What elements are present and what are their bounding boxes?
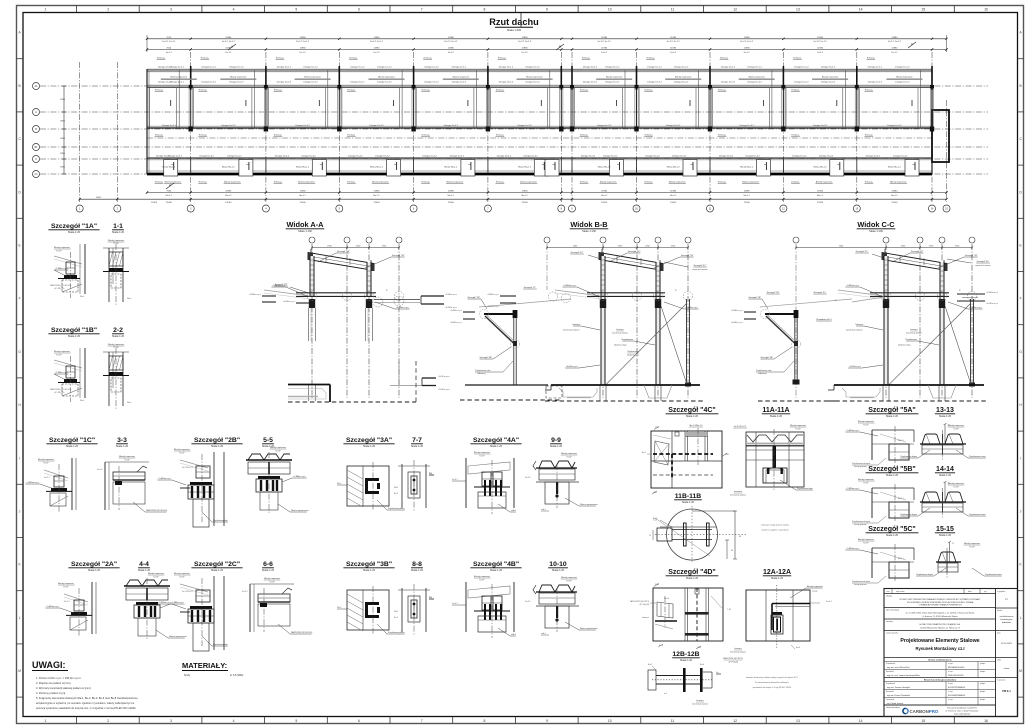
svg-text:Ecktacja: Ecktacja (791, 134, 800, 137)
svg-text:kotwiące: kotwiące (856, 323, 863, 326)
svg-text:Skala 1:20: Skala 1:20 (680, 658, 693, 662)
view A-A tie rod circles (373, 297, 383, 307)
Widok C-C crane beam (870, 292, 949, 294)
svg-text:Skala 1:20: Skala 1:20 (770, 414, 783, 418)
svg-text:Ma-1.2: Ma-1.2 (744, 195, 751, 197)
svg-text:Skala 1:200: Skala 1:200 (507, 28, 522, 32)
svg-text:Skala 1:20: Skala 1:20 (112, 334, 125, 338)
svg-text:Dv-3.4: Dv-3.4 (664, 598, 669, 600)
svg-text:11980: 11980 (817, 37, 824, 39)
title block outline (884, 589, 1018, 717)
svg-text:9: 9 (546, 8, 548, 12)
svg-text:L: L (1020, 616, 1022, 620)
svg-text:PROJEKT JEST PRZEDMIOTEM PRAWA: PROJEKT JEST PRZEDMIOTEM PRAWA AUTORSKIE… (900, 598, 982, 601)
svg-text:I: I (1020, 456, 1021, 460)
svg-text:+5,880m n.p.t.: +5,880m n.p.t. (846, 284, 859, 287)
svg-text:Blachy trapezowe: Blachy trapezowe (474, 451, 491, 454)
Widok B-B grid bubbles and dimension line (600, 237, 606, 243)
svg-text:architektoniczna: architektoniczna (1000, 615, 1015, 618)
svg-text:Ma-1.1: Ma-1.1 (166, 195, 173, 197)
svg-text:PW-K-1: PW-K-1 (1002, 690, 1011, 693)
Widok A-A crane beam (296, 292, 376, 294)
svg-text:5: 5 (295, 719, 297, 723)
svg-text:M: M (18, 669, 21, 673)
svg-text:Blachy trapezowe: Blachy trapezowe (304, 76, 321, 79)
svg-text:kotwiące konstrukcje stalowe n: kotwiące konstrukcje stalowe należy oczy… (746, 676, 799, 679)
svg-text:15.10.2021: 15.10.2021 (1001, 643, 1013, 645)
svg-text:ZAWY.ŻURZ (ISO.W7.9): ZAWY.ŻURZ (ISO.W7.9) (723, 657, 743, 660)
svg-text:Wa-1: Wa-1 (80, 400, 84, 402)
svg-text:wiązanie kuszowe: wiązanie kuszowe (975, 265, 990, 267)
svg-text:Dźwigar Dv-2.2: Dźwigar Dv-2.2 (721, 80, 736, 83)
svg-text:Dv-1.2: Dv-1.2 (522, 52, 529, 54)
svg-text:branża:: branża: (997, 609, 1003, 612)
svg-text:żelb.1: żelb.1 (511, 510, 516, 512)
svg-text:Ecktacja: Ecktacja (791, 181, 800, 184)
svg-text:Szczegół "4D": Szczegół "4D" (668, 569, 715, 576)
svg-text:Skala 1:20: Skala 1:20 (552, 568, 565, 572)
svg-text:+5,880m n.p.t.: +5,880m n.p.t. (450, 309, 463, 312)
svg-text:konstrukcja stalowa: konstrukcja stalowa (612, 332, 628, 335)
detail drawing 14-14 (922, 492, 940, 502)
svg-text:Projektowany słup: Projektowany słup (756, 369, 771, 372)
detail drawing 2-2 (103, 351, 129, 353)
svg-text:Dv-2.2, Dv-1.2: Dv-2.2, Dv-1.2 (370, 41, 384, 43)
svg-text:Wieńce wyrównawcze: Wieńce wyrównawcze (291, 510, 309, 512)
svg-text:Dźwigar Dv-4.2: Dźwigar Dv-4.2 (422, 155, 437, 158)
svg-text:F: F (1020, 297, 1022, 301)
svg-text:Dźwigar Dv-1.2: Dźwigar Dv-1.2 (794, 65, 809, 68)
svg-text:Szczegół "3A": Szczegół "3A" (346, 437, 392, 444)
svg-text:nr rysunku:: nr rysunku: (997, 679, 1006, 682)
svg-text:Ecktacja: Ecktacja (155, 89, 164, 92)
svg-text:żelbetowy: żelbetowy (758, 372, 766, 375)
detail drawing 1-1 (103, 247, 129, 249)
Widok A-A joint circles (307, 291, 316, 300)
title block staff section constructors (884, 681, 996, 683)
svg-text:2950: 2950 (60, 153, 66, 155)
title block right column cells (996, 607, 1018, 609)
svg-text:Prowadnica HL-1: Prowadnica HL-1 (816, 319, 832, 321)
detail drawing 3-3 (104, 462, 106, 510)
svg-text:Dv-1.2: Dv-1.2 (670, 52, 677, 54)
svg-text:Ecktacja: Ecktacja (580, 89, 589, 92)
svg-text:Dźwigar Dv-1.2: Dźwigar Dv-1.2 (721, 65, 736, 68)
svg-text:Skala 1:20: Skala 1:20 (686, 576, 699, 580)
svg-text:11980: 11980 (891, 191, 898, 193)
svg-text:84: 84 (739, 536, 741, 538)
svg-text:Dv-1.2: Dv-1.2 (225, 52, 232, 54)
svg-text:podpis:: podpis: (980, 663, 986, 665)
svg-text:Dźwigar Dv-1.2: Dźwigar Dv-1.2 (424, 65, 439, 68)
svg-text:2°: 2° (835, 300, 837, 302)
svg-text:+4,080m n.p.t.: +4,080m n.p.t. (283, 300, 296, 303)
svg-text:11980: 11980 (601, 37, 608, 39)
svg-text:Projektował:: Projektował: (886, 662, 896, 665)
svg-text:Skala 1:20: Skala 1:20 (411, 444, 424, 448)
svg-text:Dźwigar Dv-1.2: Dźwigar Dv-1.2 (868, 65, 883, 68)
svg-text:Projektowane zbrojone: Projektowane zbrojone (852, 520, 870, 523)
svg-text:mgr inż. Daniel Chrobocki: mgr inż. Daniel Chrobocki (887, 695, 910, 697)
detail drawing Szczegol 5C (871, 548, 873, 578)
svg-text:Projektowany słup: Projektowany słup (475, 369, 490, 372)
svg-text:Dźwigar Dv-1.2: Dźwigar Dv-1.2 (605, 65, 620, 68)
svg-text:Blachy trapezowe: Blachy trapezowe (600, 181, 617, 184)
svg-text:11980: 11980 (300, 48, 307, 50)
svg-text:Ecktacja: Ecktacja (347, 181, 356, 184)
Widok B-B columns (601, 256, 605, 385)
svg-text:+4,080m n.p.t.: +4,080m n.p.t. (487, 305, 500, 308)
svg-text:16: 16 (984, 8, 988, 12)
svg-text:2: 2 (107, 8, 109, 12)
svg-text:T155P: T155P (56, 355, 62, 357)
svg-text:Projektowana ściana: Projektowana ściana (969, 455, 986, 458)
svg-text:2°: 2° (386, 290, 388, 292)
svg-text:adnotacje/podpisy:: adnotacje/podpisy: (886, 706, 901, 709)
svg-text:kotwiące: kotwiące (734, 647, 741, 650)
plan top dimension lines (147, 38, 947, 40)
svg-text:Ma-1.2: Ma-1.2 (670, 195, 677, 197)
svg-text:4: 4 (233, 719, 235, 723)
svg-text:nr upr.:: nr upr.: (948, 670, 954, 673)
svg-text:+5,880m n.p.t.: +5,880m n.p.t. (487, 293, 500, 296)
svg-text:11980: 11980 (670, 191, 677, 193)
plan bottom heavy line (147, 173, 932, 176)
svg-text:Bu-2: Bu-2 (648, 664, 652, 666)
title block logo row (884, 704, 996, 706)
svg-text:konstrukcja stalowa: konstrukcja stalowa (906, 332, 922, 335)
svg-text:Dv-1.2: Dv-1.2 (817, 52, 824, 54)
svg-text:5. Fragmenty elementów stal: 5. Fragmenty elementów stalowych Wa-1, B… (36, 696, 138, 700)
svg-text:Szczegół "4C": Szczegół "4C" (628, 251, 641, 253)
svg-text:Skala 1:20: Skala 1:20 (550, 444, 563, 448)
svg-text:T155P: T155P (179, 576, 185, 578)
svg-text:15: 15 (921, 8, 925, 12)
svg-text:+(P+Pb)+(N): +(P+Pb)+(N) (639, 604, 649, 606)
svg-text:12: 12 (733, 8, 737, 12)
svg-text:E: E (19, 244, 21, 248)
svg-text:Marka Ma-1.1: Marka Ma-1.1 (162, 166, 176, 169)
svg-text:obudowa słupa: obudowa słupa (614, 345, 628, 347)
svg-text:Szczegół "1B": Szczegół "1B" (748, 297, 761, 299)
svg-text:nawiercić zgodnie z rysunkiem: nawiercić zgodnie z rysunkiem (761, 530, 788, 532)
view A-A left level marks (296, 302, 310, 304)
view C-C right bracket marks (957, 293, 985, 295)
svg-text:6000: 6000 (96, 197, 102, 199)
svg-text:15-15: 15-15 (936, 526, 954, 533)
svg-text:2950: 2950 (60, 121, 66, 123)
svg-text:Projektowany słup: Projektowany słup (213, 519, 228, 522)
detail drawing 7-7 (401, 464, 403, 508)
svg-text:Skala 1:20: Skala 1:20 (886, 414, 899, 418)
Widok B-B diagonal braces (606, 303, 687, 385)
svg-text:Projektowane słupy: Projektowane słupy (797, 487, 813, 490)
svg-text:Skala 1:20: Skala 1:20 (68, 230, 81, 234)
svg-text:Skala 1:20: Skala 1:20 (66, 444, 79, 448)
svg-text:Blachy trapezowe: Blachy trapezowe (748, 76, 765, 79)
bottom tick strip (76, 717, 78, 724)
plan horizontal grid lines (40, 85, 988, 87)
title block header row (891, 589, 893, 594)
svg-text:B: B (19, 84, 21, 88)
svg-text:Dv-1.2: Dv-1.2 (374, 52, 381, 54)
Widok A-A foundation existing (288, 384, 330, 386)
svg-text:Blachy trapezowe: Blachy trapezowe (148, 572, 165, 575)
svg-text:ściany oporowe: ściany oporowe (854, 524, 867, 526)
svg-text:T155P: T155P (812, 591, 818, 593)
svg-text:podpis:: podpis: (980, 683, 986, 685)
svg-text:Ma-1.1: Ma-1.1 (898, 498, 904, 500)
svg-text:nazwa rysunku:: nazwa rysunku: (886, 633, 899, 635)
svg-text:Blachy trapezowe: Blachy trapezowe (224, 181, 241, 184)
svg-text:T155P: T155P (63, 586, 69, 588)
svg-text:Blachy trapezowe: Blachy trapezowe (230, 76, 247, 79)
svg-text:Skala 1:20: Skala 1:20 (262, 568, 275, 572)
svg-text:antykorozyjnie w wytwórni, po: antykorozyjnie w wytwórni, po montażu zg… (36, 701, 135, 705)
svg-text:Skala 1:20: Skala 1:20 (682, 500, 695, 504)
svg-text:Wa-1: Wa-1 (337, 607, 341, 609)
svg-text:rys.: rys. (984, 591, 987, 593)
svg-text:7: 7 (421, 719, 423, 723)
svg-text:żelb.1: żelb.1 (541, 509, 546, 511)
svg-text:11: 11 (671, 8, 675, 12)
view A-A bracket ground (465, 384, 548, 386)
svg-text:Projektował:: Projektował: (886, 682, 896, 685)
detail drawing Szczegol 4C (651, 431, 722, 488)
svg-text:15: 15 (921, 719, 925, 723)
svg-text:Dv-2.1, Dv-1.1: Dv-2.1, Dv-1.1 (162, 41, 176, 43)
plan bottom dimension lines (147, 192, 947, 194)
svg-text:+5,880m n.p.t.: +5,880m n.p.t. (846, 487, 859, 490)
svg-text:Marka Ma-1.2: Marka Ma-1.2 (518, 166, 532, 169)
title block staff section architects (884, 661, 996, 663)
svg-text:Ma-1.2: Ma-1.2 (373, 195, 380, 197)
svg-text:10: 10 (608, 8, 612, 12)
svg-text:T155P: T155P (953, 428, 959, 430)
svg-text:Szczegół "4A": Szczegół "4A" (473, 437, 519, 444)
svg-text:Ecktacja: Ecktacja (199, 181, 208, 184)
svg-text:Szczegół "3B": Szczegół "3B" (760, 357, 773, 359)
svg-text:żelb.1: żelb.1 (541, 633, 546, 635)
svg-text:ZAWY.ŻURZ (ISO.W7.9-II): ZAWY.ŻURZ (ISO.W7.9-II) (50, 388, 72, 391)
svg-text:Skala 1:20: Skala 1:20 (411, 568, 424, 572)
svg-text:Ecktacja: Ecktacja (645, 134, 654, 137)
svg-text:6: 6 (358, 8, 360, 12)
svg-text:Dźwigar Dv-1.2: Dźwigar Dv-1.2 (647, 65, 662, 68)
svg-text:Dv-1.2: Dv-1.2 (448, 52, 455, 54)
view C-C tie extension (852, 297, 884, 302)
svg-text:Szczegół "1B": Szczegół "1B" (392, 255, 405, 257)
svg-text:Szczegół "4C": Szczegół "4C" (911, 251, 924, 253)
svg-text:Dźwigar Dv-2.2: Dźwigar Dv-2.2 (895, 80, 910, 83)
svg-text:podpis:: podpis: (980, 699, 986, 701)
svg-text:UDOSTĘPNIANY OSOBOM TRZECIM BE: UDOSTĘPNIANY OSOBOM TRZECIM BEZ ZGODY AU… (907, 601, 974, 604)
svg-text:nr upr.:: nr upr.: (948, 662, 954, 665)
svg-text:data: data (968, 590, 972, 593)
svg-text:Dźwigar Dv-2.1: Dźwigar Dv-2.1 (170, 80, 185, 83)
svg-text:Dv-1.2: Dv-1.2 (300, 52, 307, 54)
svg-text:Marka Ma-1.2: Marka Ma-1.2 (598, 166, 612, 169)
svg-text:konstrukcyjno-: konstrukcyjno- (1000, 618, 1013, 621)
svg-text:Dźwigar Dv-1.2: Dźwigar Dv-1.2 (499, 65, 514, 68)
svg-text:kotwiące: kotwiące (616, 328, 623, 331)
svg-text:Dźwigar Dv-2.2: Dźwigar Dv-2.2 (229, 80, 244, 83)
svg-text:Projektowane zbrojone: Projektowane zbrojone (852, 580, 870, 583)
svg-text:Dźwigar Dv-2.2: Dźwigar Dv-2.2 (583, 80, 598, 83)
svg-text:+4,080m n.p.t.: +4,080m n.p.t. (685, 306, 698, 309)
svg-text:mgr inż. Tomasz Gosztyła: mgr inż. Tomasz Gosztyła (887, 686, 911, 689)
svg-text:Dźwigar Dv-4.2: Dźwigar Dv-4.2 (523, 155, 538, 158)
svg-text:Dv-2.3/Dv-2.1: Dv-2.3/Dv-2.1 (182, 467, 193, 469)
svg-text:8: 8 (483, 719, 485, 723)
svg-text:16: 16 (984, 719, 988, 723)
svg-text:+5,880m n.p.t.: +5,880m n.p.t. (249, 293, 262, 296)
Widok C-C levels (860, 287, 881, 296)
svg-text:żelb.1: żelb.1 (511, 634, 516, 636)
svg-text:Dźwigar Dv-4.2: Dźwigar Dv-4.2 (581, 155, 596, 158)
svg-text:Skala 1:20: Skala 1:20 (771, 576, 784, 580)
svg-text:T155P: T155P (863, 542, 869, 544)
svg-text:Marka Ma-1.2: Marka Ma-1.2 (888, 166, 902, 169)
svg-text:Dźwigar Dv-4.2: Dźwigar Dv-4.2 (200, 155, 215, 158)
svg-text:13: 13 (796, 719, 800, 723)
svg-text:obudowa słupa: obudowa słupa (627, 355, 639, 357)
Widok C-C secondary column (970, 299, 972, 385)
svg-text:Ecktacja: Ecktacja (274, 134, 283, 137)
svg-text:7-7: 7-7 (412, 437, 422, 444)
svg-text:Ecktacja: Ecktacja (865, 181, 874, 184)
svg-text:5-5: 5-5 (263, 437, 273, 444)
svg-text:żelbetowy: żelbetowy (477, 372, 485, 375)
svg-text:Blachy trapezowe: Blachy trapezowe (165, 181, 182, 184)
svg-text:HUTA CYNKU MIASTECZKO ŚLĄSKIE: HUTA CYNKU MIASTECZKO ŚLĄSKIE S.A. (919, 623, 960, 626)
svg-text:Szczegół "1B": Szczegół "1B" (681, 255, 694, 257)
svg-text:Dźwigar Dv-3.2: Dźwigar Dv-3.2 (369, 124, 384, 127)
svg-text:Dźwigar Dv-1.2: Dźwigar Dv-1.2 (277, 65, 292, 68)
detail drawing 13-13 (922, 434, 940, 444)
svg-text:Dv-1.2: Dv-1.2 (601, 52, 608, 54)
svg-text:Dźwigar Dv-3.2: Dźwigar Dv-3.2 (597, 124, 612, 127)
svg-text:Projektowana ściana: Projektowana ściana (985, 573, 1002, 576)
detail drawing 6-6 (249, 584, 251, 632)
svg-text:Dźwigar Dv-4.2: Dźwigar Dv-4.2 (672, 155, 687, 158)
Widok A-A roof truss (308, 253, 374, 271)
svg-text:11980: 11980 (448, 191, 455, 193)
svg-text:Szczegół "1A": Szczegół "1A" (337, 250, 350, 253)
svg-text:Dźwigar Dv-3.2: Dźwigar Dv-3.2 (295, 124, 310, 127)
svg-text:Bu-6: Bu-6 (700, 664, 704, 666)
svg-text:www.carbonpro.pl: www.carbonpro.pl (954, 714, 970, 716)
svg-text:12000: 12000 (817, 202, 824, 204)
svg-text:+4,080m n.p.t.: +4,080m n.p.t. (396, 306, 409, 309)
svg-text:11980: 11980 (744, 37, 751, 39)
svg-text:ściany oporowe: ściany oporowe (854, 584, 867, 586)
svg-text:Ecktacja: Ecktacja (496, 89, 505, 92)
svg-text:Ma-1.2/Ma-1.3: Ma-1.2/Ma-1.3 (689, 425, 703, 427)
svg-text:ul. Hutnicza 17, 42-610 Miaste: ul. Hutnicza 17, 42-610 Miasteczko Śląsk… (922, 615, 957, 618)
svg-text:Projektowana: Projektowana (627, 350, 639, 353)
svg-text:Wieńce wyrównawcze: Wieńce wyrównawcze (580, 504, 598, 506)
detail drawing 9-9 (539, 461, 575, 468)
svg-text:M: M (1019, 669, 1022, 673)
svg-text:Ecktacja: Ecktacja (349, 57, 358, 60)
plan row bubbles (33, 83, 40, 90)
svg-text:Sprawdził:: Sprawdził: (886, 690, 894, 693)
svg-text:Blachy trapezowe: Blachy trapezowe (174, 572, 191, 575)
svg-text:Dv-3.1: Dv-3.1 (452, 479, 458, 481)
svg-text:Blachy trapezowe: Blachy trapezowe (54, 350, 71, 353)
svg-text:Dv-1.2: Dv-1.2 (891, 52, 898, 54)
detail drawing Szczegol 3A (347, 466, 389, 506)
svg-text:4: 4 (233, 8, 235, 12)
svg-text:Dv-3.1: Dv-3.1 (525, 601, 531, 603)
svg-text:Wieńce wyrównawcze: Wieńce wyrównawcze (580, 628, 598, 630)
svg-text:Ecktacja: Ecktacja (580, 181, 589, 184)
svg-text:Uwaga:: Uwaga: (886, 596, 893, 598)
svg-text:Marka Ma-1.2: Marka Ma-1.2 (814, 166, 828, 169)
svg-text:+5,880m n.p.t.: +5,880m n.p.t. (46, 605, 59, 608)
svg-text:Dźwigar Dv-3.2: Dźwigar Dv-3.2 (740, 124, 755, 127)
svg-text:T155P: T155P (795, 428, 801, 430)
Widok A-A tie rod (264, 290, 310, 296)
svg-text:11A-11A: 11A-11A (762, 407, 789, 414)
svg-text:42-610 Miasteczko Śląskie, ul.: 42-610 Miasteczko Śląskie, ul. Hutnicza … (920, 627, 960, 630)
svg-text:Blachy trapezowe: Blachy trapezowe (606, 76, 623, 79)
svg-text:Szczegół "1C": Szczegół "1C" (524, 287, 537, 289)
svg-text:Pracownia projektowa CarbonPro: Pracownia projektowa CarbonPro (947, 707, 978, 710)
detail drawing 15-15 (938, 552, 956, 562)
svg-text:Ma-1.2: Ma-1.2 (225, 195, 232, 197)
Widok B-B tie rod (555, 290, 601, 296)
svg-text:2950: 2950 (60, 138, 66, 140)
svg-text:12000: 12000 (670, 202, 677, 204)
svg-text:13-13: 13-13 (936, 407, 954, 414)
detail drawing 11A-11A (746, 432, 804, 487)
svg-text:+5,880m n.p.t.: +5,880m n.p.t. (55, 267, 68, 270)
svg-text:kotwiące: kotwiące (696, 699, 703, 702)
svg-text:B: B (1020, 84, 1022, 88)
svg-text:skala:: skala: (997, 660, 1002, 662)
svg-text:12000: 12000 (448, 202, 455, 204)
svg-text:Blachy trapezowe: Blachy trapezowe (669, 181, 686, 184)
svg-text:Dźwigar Dv-1.2: Dźwigar Dv-1.2 (229, 65, 244, 68)
svg-text:Blachy trapezowe: Blachy trapezowe (447, 181, 464, 184)
svg-text:+5,880m n.p.t.: +5,880m n.p.t. (445, 293, 458, 296)
svg-text:Projektowana płatew: Projektowana płatew (388, 631, 405, 634)
detail drawing Szczegol 2C (180, 584, 208, 592)
svg-text:+4,080m n.p.t.: +4,080m n.p.t. (450, 321, 463, 324)
Widok C-C roof truss (882, 253, 947, 271)
plan bay columns and fittings (190, 66, 192, 90)
svg-text:Skala 1:20: Skala 1:20 (211, 444, 224, 448)
svg-text:Projektowane słupne: Projektowane słupne (900, 455, 917, 458)
svg-text:Blachy trapezowe: Blachy trapezowe (858, 420, 875, 423)
svg-text:Skala 1:20: Skala 1:20 (939, 533, 952, 537)
svg-text:Skala 1:20: Skala 1:20 (490, 568, 503, 572)
svg-text:nr projektu:: nr projektu: (997, 590, 1006, 593)
svg-text:Projektowana: Projektowana (622, 338, 634, 341)
svg-text:Skala 1:20: Skala 1:20 (363, 444, 376, 448)
svg-text:wiązanie kuszowe: wiązanie kuszowe (692, 269, 707, 271)
svg-text:11980: 11980 (744, 191, 751, 193)
svg-text:Dźwigar Dv-4.2: Dźwigar Dv-4.2 (375, 155, 390, 158)
svg-text:Dv-1.1: Dv-1.1 (166, 52, 173, 54)
svg-text:11980: 11980 (300, 37, 307, 39)
Widok B-B joint circles (598, 291, 607, 300)
svg-text:Ma-1.2: Ma-1.2 (521, 195, 528, 197)
svg-text:Dźwigar Dv-2.2: Dźwigar Dv-2.2 (674, 80, 689, 83)
svg-text:Ecktacja: Ecktacja (276, 57, 285, 60)
